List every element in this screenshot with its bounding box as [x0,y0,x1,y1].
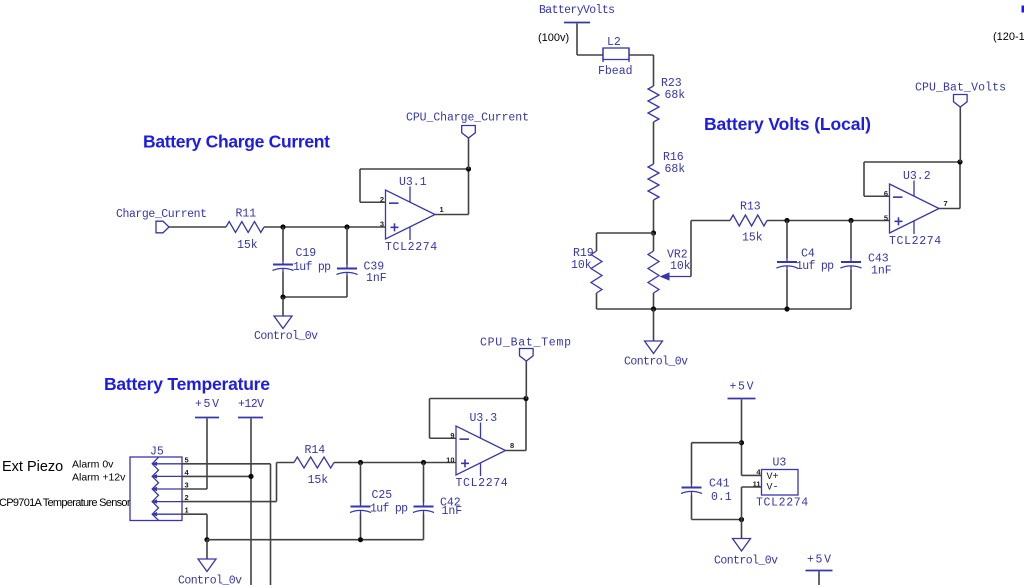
wire [250,419,252,585]
svg-text:CPU_Bat_Volts: CPU_Bat_Volts [915,82,1006,95]
svg-text:TCL2274: TCL2274 [756,497,809,510]
svg-text:1: 1 [185,506,189,515]
capacitor C41 [681,478,732,520]
svg-text:3: 3 [380,219,384,228]
node junction [523,396,528,401]
resistor R16 [648,151,685,200]
wire [206,419,208,490]
svg-text:TCL2274: TCL2274 [385,241,438,254]
svg-text:Control_0v: Control_0v [178,575,242,585]
ground Control_0v [714,539,778,568]
node junction [358,537,363,542]
node junction [344,224,349,229]
svg-text:1uf pp: 1uf pp [293,261,331,274]
wire [653,200,655,233]
node junction [280,224,285,229]
svg-text:U3.2: U3.2 [903,170,931,183]
svg-text:68k: 68k [665,89,686,102]
port CPU_Bat_Temp [480,337,571,362]
svg-text:Control_0v: Control_0v [624,356,688,369]
wire J5 pin5 [182,463,271,465]
wire [692,519,742,521]
wire [767,220,890,222]
node junction [651,230,656,235]
svg-text:10k: 10k [670,260,691,273]
op-amp U3 [753,457,809,510]
power +5V [195,398,219,418]
power +5V [806,554,833,571]
svg-text:Ext Piezo: Ext Piezo [2,459,63,475]
wire [468,138,470,169]
wire ground rail [207,539,424,541]
wire J5 pin2 [182,501,277,503]
svg-text:BatteryVolts: BatteryVolts [539,4,615,17]
node junction [957,159,962,164]
svg-text:+5V: +5V [730,381,754,394]
port Charge_Current [116,208,207,233]
svg-text:C41: C41 [709,478,730,491]
resistor R14 [294,444,334,487]
svg-text:TCL2274: TCL2274 [456,477,509,490]
wire feedback [959,162,961,209]
wire V- [742,486,762,488]
svg-text:C25: C25 [372,489,393,502]
node junction [248,474,253,479]
svg-text:5: 5 [185,455,189,464]
node junction [784,218,789,223]
op-amp U3.3 [446,412,514,490]
svg-text:4: 4 [185,468,190,477]
svg-text:Control_0v: Control_0v [714,555,778,568]
svg-text:1uf pp: 1uf pp [796,260,834,273]
potentiometer VR2 [648,233,691,309]
svg-text:Battery Temperature: Battery Temperature [104,374,270,394]
node junction [466,166,471,171]
svg-text:10: 10 [446,455,454,464]
svg-text:15k: 15k [237,239,258,252]
wire [629,54,654,56]
svg-text:U3: U3 [773,457,787,470]
svg-text:1: 1 [440,205,444,214]
wire [818,572,820,585]
node junction [280,294,285,299]
capacitor C43 [841,221,892,310]
svg-text:U3.3: U3.3 [470,412,498,425]
svg-text:10k: 10k [571,259,592,272]
svg-text:(120-140v): (120-140v) [993,31,1024,43]
resistor R13 [730,201,767,245]
svg-text:15k: 15k [308,474,329,487]
svg-text:3: 3 [185,481,189,490]
svg-text:2: 2 [185,493,189,502]
svg-text:0.1: 0.1 [711,491,732,504]
svg-text:CPU_Charge_Current: CPU_Charge_Current [406,112,529,125]
wire [741,400,743,476]
inductor L2 Fbead [598,36,633,78]
svg-text:7: 7 [944,199,948,208]
svg-text:C19: C19 [296,247,317,260]
svg-text:+5V: +5V [807,554,831,567]
connector J5 [130,446,190,521]
capacitor C42 [413,463,462,540]
op-amp U3.1 [380,176,444,254]
wire J5 pin4 [182,475,251,477]
svg-text:Charge_Current: Charge_Current [116,208,207,221]
svg-text:R14: R14 [305,444,326,457]
svg-text:1nF: 1nF [442,505,463,518]
svg-text:+5V: +5V [195,398,219,411]
node junction [784,306,789,311]
wire [596,293,598,309]
capacitor C39 [337,227,387,297]
node junction [421,460,426,465]
wire [334,462,456,464]
ground Control_0v [178,559,242,585]
svg-text:V-: V- [767,483,779,494]
wire feedback [525,399,527,451]
power +5V [728,381,756,399]
svg-text:68k: 68k [665,163,686,176]
power +12V [238,398,264,418]
capacitor C25 [350,463,408,540]
wire [597,232,654,234]
svg-text:V+: V+ [767,472,779,483]
wire feedback [468,169,470,215]
svg-text:Battery Volts (Local): Battery Volts (Local) [704,114,871,134]
op-amp U3.2 [884,170,948,248]
wire ground rail [597,308,852,310]
svg-text:Control_0v: Control_0v [254,330,318,343]
svg-text:Alarm 0v: Alarm 0v [72,459,114,471]
svg-text:8: 8 [510,441,514,450]
svg-text:1nF: 1nF [871,265,892,278]
svg-text:C4: C4 [801,248,815,261]
wire [264,226,386,228]
node junction [739,517,744,522]
svg-text:15k: 15k [742,232,763,245]
wire [169,226,226,228]
svg-text:R11: R11 [236,208,257,221]
resistor R23 [648,77,685,122]
node junction [358,460,363,465]
svg-text:Battery Charge Current: Battery Charge Current [143,132,330,152]
node junction [739,440,744,445]
wire [206,540,208,559]
wire [283,296,347,298]
wire wiper riser [690,221,692,277]
wire C41 branch [692,442,742,444]
ground Control_0v [624,341,688,369]
svg-text:5: 5 [884,213,888,222]
svg-text:(100v): (100v) [538,32,569,44]
resistor R19 [571,247,602,293]
capacitor C4 [777,221,835,310]
wire [525,361,527,399]
wire [653,122,655,164]
svg-text:MCP9701A Temperature Sensor: MCP9701A Temperature Sensor [0,497,131,509]
svg-text:Fbead: Fbead [598,65,633,78]
wire output pin8 [506,450,527,452]
resistor R11 [226,208,264,253]
wire output pin7 [939,208,960,210]
capacitor C19 [273,227,332,297]
power BatteryVolts [539,4,615,23]
ground Control_0v [254,316,318,343]
node junction [204,537,209,542]
wire [959,107,961,162]
svg-text:CPU_Bat_Temp: CPU_Bat_Temp [480,337,571,350]
svg-text:+12V: +12V [238,398,264,411]
port CPU_Bat_Volts [915,82,1006,108]
node junction [651,306,656,311]
svg-text:R13: R13 [740,201,761,214]
port CPU_Charge_Current [406,112,529,139]
label clipped title fragment [1022,6,1024,13]
svg-text:L2: L2 [607,36,621,49]
wire J5 pin3 [182,488,207,490]
svg-text:TCL2274: TCL2274 [889,235,942,248]
svg-text:1uf pp: 1uf pp [370,503,408,516]
node junction [848,218,853,223]
wire [576,24,578,56]
svg-text:U3.1: U3.1 [399,176,427,189]
svg-text:Alarm +12v: Alarm +12v [72,472,126,484]
wire output pin1 [435,214,469,216]
wire [653,309,655,341]
wire J5 pin1 [182,513,207,515]
wire [282,297,284,316]
svg-text:1nF: 1nF [366,272,387,285]
